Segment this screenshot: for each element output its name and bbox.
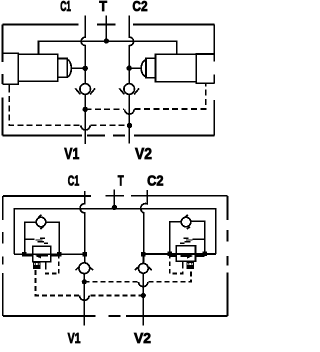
svg-text:C2: C2 [132,0,147,15]
svg-text:V1: V1 [68,330,81,347]
svg-text:V2: V2 [134,330,151,347]
svg-text:V1: V1 [64,146,79,163]
svg-text:C1: C1 [60,0,71,15]
svg-text:C1: C1 [68,174,80,190]
svg-text:T: T [118,174,124,190]
svg-text:C2: C2 [147,174,163,190]
svg-text:T: T [99,0,107,15]
svg-text:V2: V2 [135,146,152,163]
